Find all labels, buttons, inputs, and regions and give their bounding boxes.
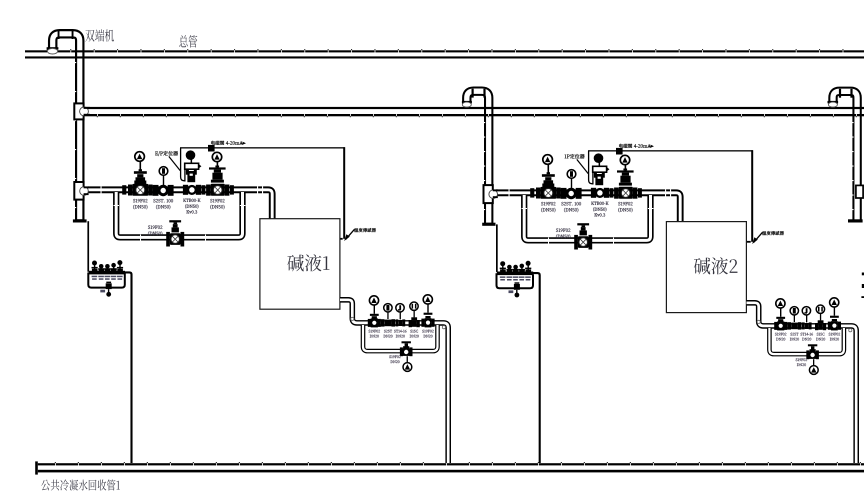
- gate valve S19F02 DN50 #1 unit2: [530, 188, 534, 197]
- sampling manifold 1 valves: [92, 260, 124, 274]
- cap on unit3 riser bottom: [848, 219, 863, 222]
- stub cap of arch3 onto pipe2: [828, 101, 839, 103]
- tank outlet to trap manifold 1: [340, 300, 448, 463]
- trap manifold 2 inlet gate valve: [774, 322, 777, 330]
- cap on unit2 riser bottom: [482, 223, 495, 226]
- tee unit1 riser x process line: [74, 182, 83, 200]
- sampling manifold 1 outlet line to condensate pipe: [124, 272, 132, 463]
- riser arch unit1 (to 双端机) with down pipe: [53, 34, 80, 221]
- trap manifold 1 bypass loop: [363, 325, 438, 351]
- pipe couplings on risers: [75, 62, 854, 210]
- strainer S25T 100 unit1: [153, 185, 159, 196]
- pneumatic control valve KTB00-K unit2: [589, 151, 593, 184]
- positioner label unit1: [155, 151, 178, 156]
- trap manifold 2 bypass valve: [808, 344, 817, 346]
- sampling manifold 2 tags: [500, 276, 531, 280]
- tee unit2 riser x process line: [484, 185, 493, 203]
- drop line to sampling manifold 2: [496, 224, 498, 272]
- pipe joints: [101, 186, 264, 193]
- riser arch unit3 (right edge) with down pipe: [833, 91, 857, 220]
- process line unit1: tee to tank inlet elbow: [88, 190, 272, 220]
- sampling manifold 1 drain valve: [106, 282, 111, 284]
- bypass loop unit1: [116, 192, 242, 237]
- sampling manifold 2 loop: [497, 273, 534, 288]
- trap manifold 1 inlet gate valve: [368, 319, 371, 327]
- tank 碱液2: [666, 222, 746, 313]
- process line unit2: tee to tank inlet elbow: [496, 193, 680, 223]
- sampling manifold 2 outlet line to condensate pipe: [532, 273, 540, 463]
- sampling manifold 1 tags: [92, 276, 123, 280]
- trap manifold 2 check valve: [816, 305, 824, 313]
- signal line 4-20mA unit1: [180, 147, 345, 148]
- trap manifold 2 bypass loop: [769, 328, 844, 354]
- trap manifold 2 steam trap: [802, 307, 810, 315]
- condensate return pipe end cap: [35, 461, 38, 474]
- label 双端机: [85, 29, 114, 41]
- temperature sensor label unit1: [354, 228, 376, 232]
- pneumatic control valve KTB00-K unit1: [181, 148, 185, 181]
- bypass gate valve S19F02 DN50 unit1: [169, 220, 181, 222]
- gate valve S19F02 DN50 #1 unit1: [122, 185, 126, 194]
- trap manifold 1 bypass valve: [402, 341, 411, 343]
- tee unit1 riser x pipe2: [74, 103, 83, 119]
- sampling manifold 2 valves: [500, 261, 532, 275]
- tank outlet to trap manifold 2: [747, 303, 857, 463]
- loop joint ticks: [114, 205, 246, 241]
- condensate return pipe (pipe3): [38, 462, 864, 472]
- label 公共冷凝水回收管1: [41, 480, 120, 491]
- trap manifold 2 outlet gate valve: [828, 322, 831, 330]
- trap manifold 1 strainer: [384, 304, 392, 312]
- sampling manifold 1 header: [89, 271, 125, 275]
- trap manifold 1 check valve: [410, 302, 418, 310]
- trap manifold 1 steam trap: [396, 304, 404, 312]
- flanges on arch3: [839, 89, 841, 98]
- gate valve S19F02 DN50 #2 unit2: [610, 188, 614, 197]
- riser arch unit2 with down pipe: [467, 91, 489, 224]
- unit3 fragment marks at right edge: [862, 273, 864, 276]
- trap manifold 1 outlet gate valve: [421, 319, 424, 327]
- drop line to sampling manifold 1: [87, 221, 89, 272]
- main header pipe 总管 (pipe1): [25, 49, 864, 58]
- loop joint ticks: [522, 208, 654, 244]
- stub cap of arch1 onto pipe1: [47, 47, 59, 49]
- trap manifold 2 strainer: [790, 307, 798, 315]
- flanges on arch1: [58, 30, 60, 39]
- label 总管: [179, 35, 197, 48]
- secondary header pipe (pipe2): [84, 107, 864, 117]
- sampling manifold 2 drain valve: [515, 282, 520, 284]
- tank 碱液1: [260, 219, 340, 310]
- gate valve S19F02 DN50 #2 unit1: [202, 185, 206, 194]
- positioner label unit2: [565, 154, 585, 159]
- bypass gate valve S19F02 DN50 unit2: [577, 223, 589, 225]
- stub cap of arch2 onto pipe2: [462, 101, 472, 103]
- flanges on arch2: [472, 89, 474, 98]
- bypass loop unit2: [524, 195, 650, 240]
- cap on unit1 riser bottom: [73, 219, 87, 222]
- signal line 4-20mA unit2: [588, 150, 753, 151]
- temperature sensor label unit2: [762, 231, 784, 235]
- pipe joints: [509, 189, 672, 196]
- union fitting on unit3 riser: [856, 185, 863, 198]
- sampling manifold 2 header: [497, 272, 533, 276]
- strainer S25T 100 unit2: [561, 188, 567, 199]
- sampling manifold 1 loop: [88, 273, 125, 288]
